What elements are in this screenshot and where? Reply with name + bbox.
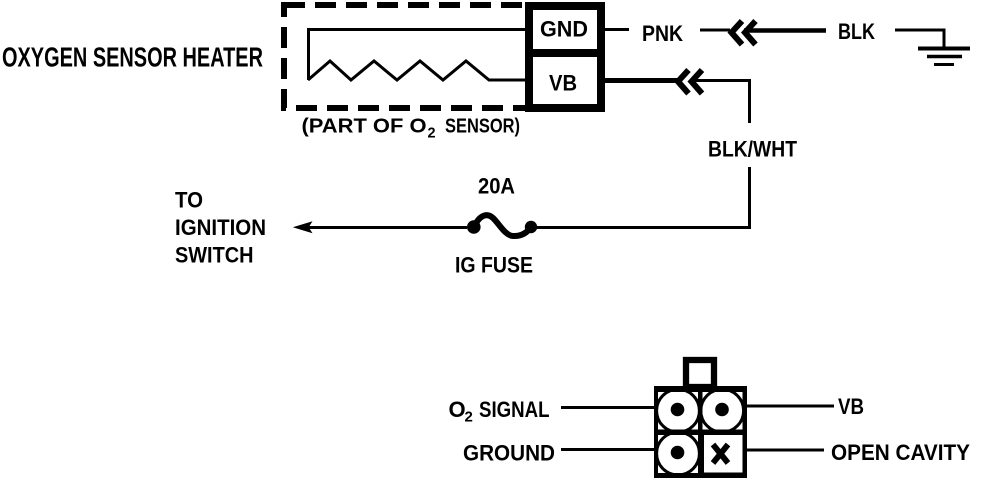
wire connector to BLK bbox=[744, 28, 826, 33]
label BLK bbox=[838, 19, 875, 44]
label BLK/WHT bbox=[708, 137, 797, 162]
connector chevrons C1 bbox=[732, 21, 756, 45]
connector chevrons C2 bbox=[678, 70, 702, 94]
connector tab bbox=[686, 360, 714, 387]
wire PNK to connector bbox=[700, 29, 730, 32]
svg-text:20A: 20A bbox=[478, 174, 515, 199]
label PNK bbox=[642, 21, 683, 46]
label 20A bbox=[478, 174, 515, 199]
wire O2 signal lead bbox=[561, 406, 654, 409]
svg-text:TO: TO bbox=[175, 188, 203, 213]
label VB right bbox=[838, 394, 864, 419]
wire BLK to ground bbox=[895, 30, 944, 48]
arrow to ignition switch bbox=[293, 221, 313, 233]
resistor heater element bbox=[308, 61, 528, 80]
wire vertical upper segment bbox=[748, 79, 751, 123]
wire GND to PNK bbox=[605, 28, 629, 31]
terminal box GND/VB bbox=[525, 2, 605, 112]
svg-text:2: 2 bbox=[428, 126, 436, 142]
label GROUND bbox=[463, 441, 555, 466]
ground symbol bbox=[918, 49, 970, 65]
wire open cavity lead bbox=[747, 449, 824, 452]
svg-text:O: O bbox=[449, 397, 466, 422]
wire VB lead bbox=[747, 405, 834, 408]
cavity open X bbox=[713, 445, 728, 464]
svg-text:BLK/WHT: BLK/WHT bbox=[708, 137, 797, 162]
label O2 SIGNAL bbox=[449, 397, 550, 426]
svg-text:BLK: BLK bbox=[838, 19, 875, 44]
wire connector to corner bbox=[691, 79, 751, 82]
svg-text:PNK: PNK bbox=[642, 21, 683, 46]
connector body bbox=[654, 386, 747, 478]
svg-text:SENSOR): SENSOR) bbox=[445, 115, 520, 138]
label IG FUSE bbox=[455, 253, 533, 278]
label OXYGEN SENSOR HEATER bbox=[2, 42, 263, 73]
wire fuse line left bbox=[300, 226, 467, 229]
svg-text:IGNITION: IGNITION bbox=[175, 215, 266, 240]
wire fuse line right bbox=[536, 226, 751, 229]
fuse IG FUSE bbox=[467, 215, 537, 236]
svg-text:GROUND: GROUND bbox=[463, 441, 555, 466]
svg-text:2: 2 bbox=[465, 409, 473, 426]
svg-text:(PART OF O: (PART OF O bbox=[302, 115, 427, 138]
svg-text:OXYGEN SENSOR HEATER: OXYGEN SENSOR HEATER bbox=[2, 42, 263, 73]
cavity VB bbox=[701, 389, 744, 432]
svg-text:VB: VB bbox=[549, 71, 577, 96]
wire heater top bbox=[309, 30, 529, 81]
svg-text:GND: GND bbox=[540, 17, 588, 42]
wire VB to connector bbox=[605, 78, 680, 83]
dashed enclosure (part of O2 sensor) bbox=[284, 5, 528, 108]
svg-text:SIGNAL: SIGNAL bbox=[479, 397, 550, 422]
svg-text:OPEN CAVITY: OPEN CAVITY bbox=[831, 440, 970, 465]
svg-text:VB: VB bbox=[838, 394, 864, 419]
svg-text:SWITCH: SWITCH bbox=[175, 243, 254, 268]
wire ground lead bbox=[561, 448, 654, 451]
label TO IGNITION SWITCH bbox=[175, 188, 266, 268]
cavity ground bbox=[657, 432, 700, 475]
label (PART OF O2 SENSOR) bbox=[302, 115, 521, 142]
svg-text:IG FUSE: IG FUSE bbox=[455, 253, 533, 278]
wire vertical lower segment bbox=[748, 167, 751, 227]
cavity O2 signal bbox=[657, 389, 700, 432]
label OPEN CAVITY bbox=[831, 440, 970, 465]
